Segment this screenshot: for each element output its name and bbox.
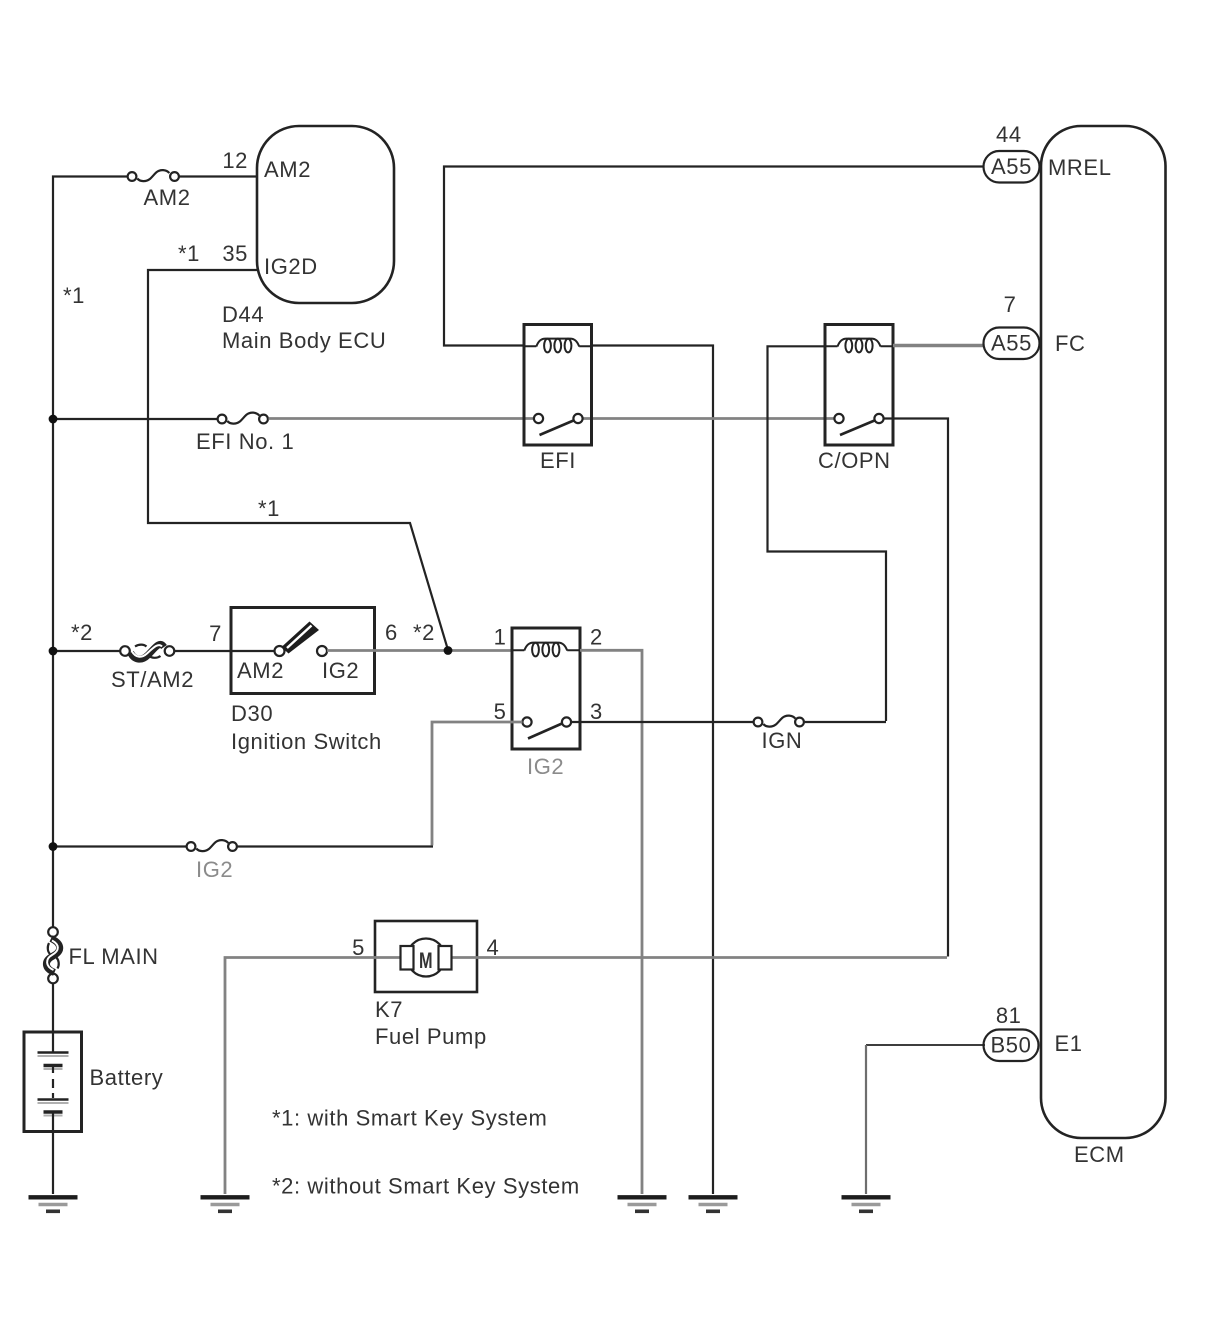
svg-text:7: 7 <box>1004 292 1017 317</box>
relay EFI switch contacts <box>534 414 583 435</box>
wire K7 left to ground riser (gray) <box>225 958 402 1195</box>
ground E1 <box>842 1197 891 1211</box>
wire IG2 pin5 to IG2 fuse riser (gray) <box>432 722 522 845</box>
svg-text:Main Body ECU: Main Body ECU <box>222 328 386 353</box>
svg-text:*1: *1 <box>178 241 200 266</box>
svg-text:M: M <box>419 949 433 974</box>
wire IG2 fuse to riser corner <box>238 845 433 847</box>
fuse EFI No. 1 <box>218 413 268 424</box>
connector A55 pin 7 oval <box>984 328 1040 360</box>
svg-text:1: 1 <box>494 625 507 650</box>
svg-text:ECM: ECM <box>1074 1142 1125 1167</box>
D30 key lever <box>282 622 320 654</box>
svg-text:*2: *2 <box>413 620 435 645</box>
ground IG2 relay <box>618 1197 667 1211</box>
wire ST/AM2 to D30 AM2 contact <box>175 650 280 652</box>
ECM box <box>1041 126 1166 1138</box>
svg-text:AM2: AM2 <box>264 157 311 182</box>
fusible link ST/AM2 <box>120 645 174 660</box>
wire D30 IG2 out to IG2 relay coil (gray) <box>327 649 512 652</box>
wire *1 from IG2D to junction <box>148 270 448 650</box>
svg-text:A55: A55 <box>991 154 1032 179</box>
relay IG2 box <box>512 628 580 749</box>
svg-text:IG2: IG2 <box>527 754 564 779</box>
fuse AM2 <box>128 170 179 181</box>
svg-text:44: 44 <box>996 122 1022 147</box>
svg-text:IG2: IG2 <box>196 857 233 882</box>
relay IG2 coil <box>512 643 580 657</box>
connector D44 Main Body ECU <box>257 126 394 303</box>
wire K7 right to C/OPN riser (gray) <box>450 956 947 959</box>
svg-text:ST/AM2: ST/AM2 <box>111 667 194 692</box>
D30 AM2 contact <box>275 646 285 656</box>
ground EFI relay <box>689 1197 738 1211</box>
ground fuel pump <box>201 1197 250 1211</box>
svg-text:Ignition Switch: Ignition Switch <box>231 729 382 754</box>
svg-text:B50: B50 <box>991 1033 1032 1058</box>
wire battery rail to IG2 fuse <box>53 845 186 847</box>
svg-text:2: 2 <box>590 625 603 650</box>
svg-text:12: 12 <box>222 148 248 173</box>
svg-text:D44: D44 <box>222 302 264 327</box>
svg-text:A55: A55 <box>991 331 1032 356</box>
relay EFI box <box>524 325 592 446</box>
junction dot ignition IG2 node <box>444 646 453 655</box>
svg-text:7: 7 <box>209 621 222 646</box>
wire EFI coil out to ground <box>592 346 714 1195</box>
wire fuse to EFI relay contact (gray) <box>269 417 535 420</box>
wire B50 to ground <box>866 1044 985 1046</box>
svg-text:81: 81 <box>996 1003 1022 1028</box>
svg-text:C/OPN: C/OPN <box>818 448 891 473</box>
wire MREL from ECM A55-44 to EFI coil <box>444 167 985 346</box>
wire battery to ground <box>52 1113 54 1194</box>
relay IG2 switch contacts <box>522 717 571 738</box>
svg-text:*1: *1 <box>258 496 280 521</box>
wire IG2 coil out to ground (gray) <box>580 650 642 1194</box>
svg-text:IG2D: IG2D <box>264 254 318 279</box>
svg-text:AM2: AM2 <box>144 185 191 210</box>
svg-text:AM2: AM2 <box>237 658 284 683</box>
connector B50 oval <box>984 1030 1039 1062</box>
wire AM2 fuse to D44 pin 12 <box>180 175 258 177</box>
wire IGN fuse to C/OPN coil riser <box>805 721 886 723</box>
svg-text:35: 35 <box>222 241 248 266</box>
svg-text:MREL: MREL <box>1048 155 1112 180</box>
svg-text:6: 6 <box>385 620 398 645</box>
svg-text:*1: with Smart Key System: *1: with Smart Key System <box>272 1106 547 1131</box>
svg-text:*1: *1 <box>63 283 85 308</box>
wire C/OPN contact out, down to fuel pump row <box>884 419 949 957</box>
svg-text:IG2: IG2 <box>322 658 359 683</box>
svg-text:5: 5 <box>494 699 507 724</box>
battery plates <box>38 1053 69 1116</box>
svg-text:EFI No. 1: EFI No. 1 <box>196 429 294 454</box>
connector A55 pin 44 oval <box>984 151 1040 183</box>
relay C/OPN switch contacts <box>834 414 883 435</box>
svg-text:IGN: IGN <box>762 728 803 753</box>
fuse IGN <box>754 716 804 727</box>
ground battery <box>29 1197 78 1211</box>
junction dot ST/AM2 <box>49 647 58 656</box>
wire rail to ST/AM2 <box>53 650 120 652</box>
relay EFI coil <box>524 339 592 353</box>
svg-text:D30: D30 <box>231 701 273 726</box>
fuel pump K7 box <box>375 921 477 992</box>
wire FL MAIN to battery <box>52 984 54 1052</box>
wire EFI contact to C/OPN contact (gray) <box>583 417 835 420</box>
fusible link FL MAIN <box>46 927 59 983</box>
svg-text:FL MAIN: FL MAIN <box>69 944 159 969</box>
svg-text:*2: without Smart Key System: *2: without Smart Key System <box>272 1174 580 1199</box>
battery box <box>24 1032 82 1132</box>
svg-text:Fuel Pump: Fuel Pump <box>375 1024 487 1049</box>
relay C/OPN box <box>825 325 893 446</box>
wire EFI No.1 row left <box>53 418 217 420</box>
wire IG2 pin3 to IGN fuse <box>571 721 753 723</box>
svg-text:Battery: Battery <box>90 1065 164 1090</box>
D30 IG2 contact <box>317 646 327 656</box>
wire battery rail x=53 <box>53 177 127 928</box>
svg-text:K7: K7 <box>375 997 403 1022</box>
svg-text:*2: *2 <box>71 620 93 645</box>
fuse IG2 <box>187 840 237 851</box>
wire C/OPN coil to FC (gray thick) <box>893 344 985 347</box>
svg-text:FC: FC <box>1055 331 1086 356</box>
svg-text:EFI: EFI <box>540 448 576 473</box>
switch D30 box <box>231 608 375 694</box>
junction dot IG2 fuse <box>49 842 58 851</box>
svg-text:3: 3 <box>590 699 603 724</box>
relay C/OPN coil <box>825 339 893 353</box>
svg-text:E1: E1 <box>1055 1031 1083 1056</box>
motor M symbol <box>401 939 452 977</box>
junction dot EFI No.1 <box>49 415 58 424</box>
wire C/OPN coil left path from IGN fuse <box>768 346 887 721</box>
